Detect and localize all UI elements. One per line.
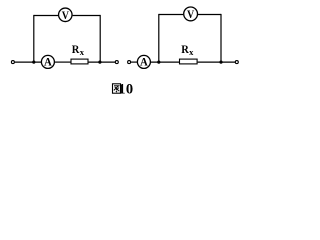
- svg-text:A: A: [44, 57, 52, 69]
- svg-text:10: 10: [118, 82, 133, 98]
- resistor Rx (right circuit): [180, 59, 198, 64]
- wire: left circuit bottom, terminal to ammeter: [15, 61, 41, 63]
- terminal: right circuit left: [128, 61, 131, 64]
- terminal: left circuit right: [115, 61, 118, 64]
- wire: left circuit left vertical: [33, 15, 35, 62]
- wire: left circuit top-right segment: [73, 15, 101, 17]
- wire: left circuit bottom, ammeter to resistor: [55, 61, 71, 63]
- voltmeter V (left circuit): [59, 8, 73, 22]
- caption glyph 图 (drawn): [113, 84, 121, 93]
- svg-text:A: A: [140, 57, 148, 69]
- terminal: right circuit right: [235, 61, 238, 64]
- wire: left circuit bottom, resistor to terminal: [89, 61, 116, 63]
- node: left circuit bottom-left junction: [32, 61, 35, 64]
- wire: right circuit bottom, resistor to terminal: [198, 61, 235, 63]
- svg-text:V: V: [187, 9, 195, 21]
- node: left circuit bottom-right junction: [98, 61, 101, 64]
- ammeter A (right circuit): [137, 55, 150, 68]
- node: right circuit bottom-left junction: [157, 61, 160, 64]
- resistor Rx (left circuit): [71, 59, 88, 64]
- wire: left circuit right vertical: [99, 15, 101, 62]
- svg-text:V: V: [62, 10, 70, 22]
- wire: right circuit top-left segment: [159, 14, 183, 16]
- wire: right circuit left vertical: [158, 14, 160, 62]
- wire: right circuit bottom, ammeter to resistor: [151, 61, 179, 63]
- terminal: left circuit left: [11, 61, 14, 64]
- voltmeter V (right circuit): [184, 7, 198, 21]
- wire: right circuit right vertical: [220, 14, 222, 62]
- wire: right circuit bottom, terminal to ammeter: [131, 61, 137, 63]
- wire: left circuit top-left segment: [34, 15, 58, 17]
- wire: right circuit top-right segment: [198, 14, 221, 16]
- ammeter A (left circuit): [41, 55, 54, 68]
- node: right circuit bottom-right junction: [219, 61, 222, 64]
